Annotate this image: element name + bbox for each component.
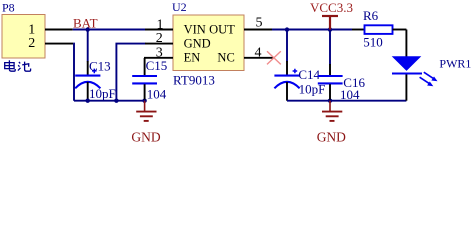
svg-text:P8: P8 [2, 1, 15, 15]
svg-text:104: 104 [340, 87, 360, 102]
wire U2.2 (GND pin) to rail [116, 44, 145, 101]
wire BAT: P8.1 to U2.1 [73, 29, 146, 31]
svg-text:10pF: 10pF [89, 86, 116, 101]
svg-text:PWR1: PWR1 [439, 56, 471, 70]
wire left ground rail [74, 100, 145, 102]
LED emission arrow 1 [424, 72, 434, 78]
svg-text:R6: R6 [363, 8, 379, 23]
svg-text:2: 2 [156, 31, 163, 46]
svg-text:2: 2 [28, 36, 35, 51]
svg-text:1: 1 [157, 17, 164, 32]
ground (left GND) [131, 101, 160, 145]
wire VCC junction down to C16 [329, 30, 331, 65]
svg-text:RT9013: RT9013 [173, 72, 215, 87]
junction VCC3.3 / C16 [328, 27, 332, 31]
svg-text:NC: NC [217, 51, 234, 65]
svg-text:U2: U2 [172, 0, 187, 14]
junction U2.2 wire / rail [114, 99, 118, 103]
wire U2.5 to R6 [272, 29, 352, 31]
svg-text:510: 510 [363, 35, 383, 50]
P8 pin 1 lead [45, 29, 73, 31]
label 电池 (battery) [5, 60, 31, 71]
svg-text:BAT: BAT [73, 15, 98, 30]
svg-text:OUT: OUT [209, 23, 235, 37]
ground (right GND) [317, 101, 346, 145]
svg-text:4: 4 [255, 46, 262, 61]
U2 pin 1 lead (VIN) [145, 29, 173, 31]
U2 pin 2 lead (GND) [145, 43, 173, 45]
U2 pin 3 lead (EN) [144, 57, 173, 59]
svg-text:3: 3 [156, 45, 163, 60]
P8 pin 2 lead [45, 43, 73, 45]
LED emission arrow 2 [420, 77, 430, 83]
svg-text:EN: EN [184, 51, 201, 65]
wire BAT junction down to C13 [87, 30, 89, 62]
svg-text:C14: C14 [298, 67, 320, 82]
resistor R6 [352, 8, 406, 50]
svg-text:VCC3.3: VCC3.3 [310, 0, 353, 15]
junction C14 [285, 27, 289, 31]
wire P8.2 down [72, 44, 75, 101]
svg-text:GND: GND [184, 37, 211, 51]
U2 pin 4 lead (NC) [244, 57, 274, 59]
wire right ground rail [287, 100, 406, 102]
capacitor C16 [318, 64, 366, 102]
junction C15 / rail / GND [142, 99, 146, 103]
LED PWR1 [392, 56, 472, 100]
wire VCC junction down to C14 [286, 30, 288, 62]
wire R6 corner down to LED [405, 30, 407, 57]
regulator U2 RT9013 [172, 0, 244, 87]
no-ERC marker X on pin 4 [267, 51, 281, 64]
svg-text:104: 104 [147, 87, 167, 102]
junction at BAT / C13 [86, 27, 90, 31]
power port VCC3.3 [310, 0, 353, 29]
junction C13 / rail [86, 99, 90, 103]
junction C16 / rail / GND [328, 99, 332, 103]
svg-text:GND: GND [131, 130, 160, 145]
U2 pin 5 lead (OUT) [244, 29, 272, 31]
capacitor C13 (polarized) [75, 59, 116, 102]
connector P8 [2, 1, 45, 58]
capacitor C15 [132, 58, 167, 102]
svg-text:VIN: VIN [184, 23, 206, 37]
svg-text:GND: GND [317, 130, 346, 145]
capacitor C14 (polarized) [274, 61, 325, 101]
svg-text:5: 5 [256, 16, 263, 31]
svg-text:C13: C13 [89, 59, 111, 74]
